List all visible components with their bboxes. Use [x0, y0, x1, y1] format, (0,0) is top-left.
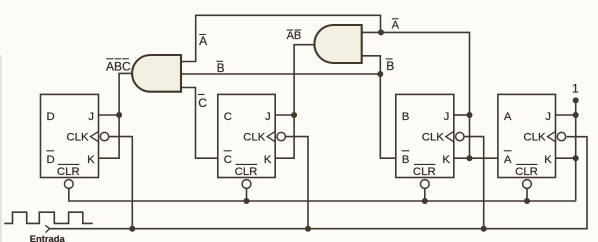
label A-bar on ABAR line near FF-B: [392, 19, 400, 32]
wire: FF-D CLK to clock rail: [107, 137, 132, 229]
junction: ABAR / FF-B K: [467, 155, 473, 161]
svg-text:CLR: CLR: [57, 166, 80, 178]
label A-bar at gate G1 top input: [199, 34, 207, 48]
junction: clock rail / FF-B CLK: [481, 226, 487, 232]
junction: CLR rail / FF-C CLR: [244, 198, 250, 204]
label B-bar on BBAR vertical near FF-B: [386, 59, 395, 73]
svg-text:J: J: [265, 111, 271, 123]
wire: FF-C J input stub: [275, 114, 294, 116]
wire: FF-B J input stub: [454, 114, 470, 116]
svg-text:A: A: [504, 111, 512, 123]
svg-text:A: A: [504, 154, 512, 166]
junction: clock rail / FF-D CLK: [129, 226, 135, 232]
svg-text:C: C: [224, 154, 232, 166]
svg-text:K: K: [442, 154, 450, 166]
wire: net ABAR horizontal from gate G2 top input to FF-B J/K vertical: [362, 32, 470, 158]
wire: net CBAR from gate G1 bottom input down to FF-C Cbar output: [181, 88, 218, 159]
svg-text:B: B: [402, 154, 410, 166]
svg-text:C: C: [224, 111, 232, 123]
label AB-bar (G2 output net): [287, 30, 302, 42]
AND gate G1 (3-input, output ABC-bar): [132, 55, 181, 92]
junction: G1 output / FF-D J: [116, 112, 122, 118]
wire: FF-D J input stub: [99, 114, 120, 116]
flip-flop FF-A (JK): [498, 94, 566, 188]
wire: clock rail from Entrada input to FF-A CLK: [49, 137, 587, 229]
wire: net ABAR top rail from gate G1 top input up and over to ABAR line: [181, 15, 381, 61]
junction: CLR rail / FF-A CLR: [524, 198, 530, 204]
wire: net BBAR horizontal (gate G1 middle input): [181, 73, 380, 75]
junction: logic-1 / FF-A J: [573, 112, 579, 118]
junction: G2 output / FF-C J: [291, 112, 297, 118]
wire: logic-1 vertical to FF-A J, K and CLR rail: [575, 99, 577, 202]
svg-text:AB: AB: [287, 30, 302, 42]
junction: CLR rail / FF-B CLR: [422, 198, 428, 204]
wire: FF-A K input stub: [556, 157, 576, 159]
flip-flop FF-D (JK): [41, 94, 109, 188]
svg-text:CLK: CLK: [66, 131, 89, 143]
wire: FF-A CLR stub: [526, 188, 528, 201]
label B-bar on BBAR line: [216, 61, 224, 75]
svg-text:K: K: [264, 154, 272, 166]
svg-text:J: J: [88, 111, 94, 123]
logic-1 terminal dot: [573, 97, 579, 103]
svg-text:CLR: CLR: [413, 166, 436, 178]
wire: FF-B CLR stub: [424, 188, 426, 201]
svg-text:K: K: [87, 154, 95, 166]
svg-text:B: B: [386, 59, 394, 73]
svg-text:ABC: ABC: [106, 60, 131, 74]
junction: logic-1 / FF-A K: [573, 155, 579, 161]
clock input arrowhead: [45, 225, 49, 232]
svg-text:Entrada: Entrada: [30, 233, 66, 242]
svg-text:CLR: CLR: [515, 166, 538, 178]
wire: net ABAR from FF-A Abar output to FF-B K input: [454, 157, 498, 159]
flip-flop FF-C (JK): [218, 94, 286, 188]
AND gate G2 (2-input, output AB-bar): [314, 25, 361, 63]
svg-text:J: J: [545, 111, 551, 123]
clock input waveform: [4, 212, 93, 223]
svg-text:K: K: [544, 154, 552, 166]
junction: ABAR line tap to top rail: [378, 29, 384, 35]
svg-text:A: A: [392, 19, 400, 31]
svg-text:J: J: [444, 111, 450, 123]
junction: ABAR / FF-B J: [467, 112, 473, 118]
junction: BBAR line tap at G2 bottom input: [377, 71, 383, 77]
svg-text:C: C: [198, 96, 207, 110]
label ABC-bar (G1 output net): [106, 59, 131, 74]
svg-text:D: D: [47, 111, 55, 123]
svg-text:A: A: [199, 34, 207, 48]
svg-text:B: B: [217, 61, 225, 75]
wire: FF-A J input stub: [556, 114, 576, 116]
flip-flop FF-B (JK): [396, 94, 464, 188]
wire: FF-B CLK to clock rail: [463, 137, 484, 229]
wire: net BBAR vertical from gate G2 bottom input down to FF-B Bbar output: [362, 56, 396, 158]
svg-text:1: 1: [572, 82, 579, 96]
wire: gate G1 output down to FF-D J and K inputs: [99, 73, 133, 158]
label C-bar on CBAR line: [198, 95, 207, 111]
svg-text:CLK: CLK: [523, 131, 546, 143]
svg-text:D: D: [47, 154, 55, 166]
wire: FF-C CLK to clock rail: [284, 137, 308, 229]
page edge artifact: [0, 55, 2, 242]
svg-text:B: B: [402, 111, 410, 123]
junction: clock rail / FF-C CLK: [305, 226, 311, 232]
wire: FF-C CLR stub: [246, 188, 248, 201]
svg-text:CLK: CLK: [422, 131, 445, 143]
wire: gate G2 output down to FF-C J and K inputs: [275, 45, 314, 159]
svg-text:CLR: CLR: [235, 166, 258, 178]
wire: CLR rail tying all flip-flop clears to logic 1: [69, 188, 576, 201]
svg-text:CLK: CLK: [243, 131, 266, 143]
